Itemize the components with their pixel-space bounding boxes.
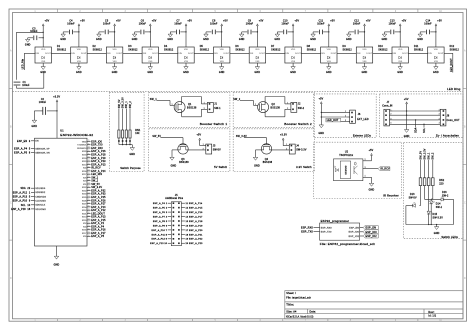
wire: [73, 31, 79, 33]
svg-text:GND: GND: [346, 39, 352, 41]
svg-text:28: 28: [88, 173, 90, 175]
svg-text:GND: GND: [434, 233, 440, 235]
svg-text:+5V: +5V: [152, 21, 157, 23]
svg-text:DIN: DIN: [428, 53, 432, 55]
resistor RN2.3: [427, 178, 430, 186]
connector J2 SW-2: [291, 102, 297, 112]
pin IO7 of U1 / net ESP_A_P13: [87, 163, 91, 165]
power +5V for J7: [406, 102, 408, 104]
junction: [364, 31, 365, 32]
svg-text:GND: GND: [219, 72, 225, 74]
ground: [362, 67, 366, 70]
svg-text:VDD: VDD: [434, 49, 439, 51]
wire: [125, 138, 127, 145]
svg-text:ESP_A_P4 1: ESP_A_P4 1: [153, 202, 168, 205]
svg-text:ESP_A_P11 8: ESP_A_P11 8: [152, 233, 168, 236]
wire: [349, 31, 355, 33]
wire: [252, 31, 258, 33]
svg-text:VDD: VDD: [255, 49, 260, 51]
wire: [47, 110, 57, 112]
capacitor C12 100nF: [354, 30, 356, 35]
svg-text:ESP_RX0: ESP_RX0: [321, 227, 333, 229]
svg-text:ESP_IO0: ESP_IO0: [366, 231, 378, 234]
wire: [313, 31, 319, 33]
svg-text:Q4: Q4: [265, 159, 269, 161]
pin IO6 of U1 / net ESP_A_P23: [87, 160, 91, 162]
svg-text:SW_3.3V: SW_3.3V: [425, 148, 427, 159]
LED D14 SW-1: [432, 186, 434, 199]
ground: [54, 256, 58, 259]
svg-text:DIN: DIN: [393, 53, 397, 55]
svg-text:13: 13: [88, 193, 90, 195]
svg-text:DIN: DIN: [178, 53, 182, 55]
svg-text:GND: GND: [239, 39, 245, 41]
sheet pin ESP_EN: [360, 227, 364, 229]
pin IO24 of U1 / net ESP_A_P15: [87, 219, 91, 221]
wire +5V rail from left: [17, 31, 44, 33]
svg-text:100nF: 100nF: [317, 23, 325, 25]
connector J1 SW-1: [207, 102, 213, 112]
pin 1 of J5 (ESP_A_P4): [168, 202, 172, 204]
wire DOUT: [301, 52, 320, 54]
svg-text:ESP_IO0: ESP_IO0: [349, 232, 360, 234]
svg-text:GND: GND: [362, 72, 368, 74]
pin IO20 of U1 / net ESP_A_P14: [87, 206, 91, 208]
wire: [216, 31, 222, 33]
svg-text:Q2: Q2: [272, 104, 276, 106]
svg-text:4: 4: [439, 123, 440, 125]
power +5V: [199, 138, 201, 140]
svg-text:SW_1: SW_1: [429, 152, 431, 160]
ground: [168, 34, 172, 37]
wire: [99, 31, 105, 33]
net label LED_OUT: [326, 118, 341, 122]
connector J6 EXT_LED: [350, 110, 356, 123]
svg-text:ESP_EN: ESP_EN: [366, 227, 377, 230]
power +5V for D5: [185, 24, 187, 26]
svg-text:Rev:: Rev:: [428, 311, 434, 314]
svg-text:SW-2: SW-2: [298, 108, 305, 110]
wire VSS to ground: [256, 63, 258, 67]
ground: [77, 67, 81, 70]
svg-text:14: 14: [88, 196, 90, 198]
power +5V for D6: [221, 24, 223, 26]
connector J8 Conn_OUT: [440, 109, 446, 126]
svg-text:ESP_A_P18: ESP_A_P18: [91, 153, 106, 156]
junction: [126, 144, 127, 145]
global label IR_RCV: [378, 167, 390, 171]
wire: [122, 109, 124, 130]
wire: [180, 31, 186, 33]
svg-text:D1: D1: [57, 46, 61, 48]
svg-text:ESP_A_P9 6: ESP_A_P9 6: [153, 224, 168, 227]
svg-text:VDD: VDD: [148, 49, 153, 51]
junction: [406, 110, 407, 111]
svg-text:C4: C4: [69, 21, 73, 23]
svg-text:ESP32-WROOM-32: ESP32-WROOM-32: [60, 133, 93, 137]
ground: [220, 67, 224, 70]
svg-text:VSS: VSS: [148, 61, 153, 63]
LED driver D4 SK6812: [142, 47, 158, 63]
wire source loop: [181, 110, 183, 117]
pin 3 OUT of U2: [363, 168, 378, 170]
svg-text:100nF: 100nF: [424, 23, 432, 25]
wire VSS to ground: [328, 63, 330, 67]
svg-text:BSS138: BSS138: [271, 107, 281, 109]
svg-text:SW-1: SW-1: [214, 108, 221, 110]
svg-text:GND: GND: [132, 39, 138, 41]
ground: [327, 67, 331, 70]
Switch LEDs section box (dashed): [404, 143, 464, 239]
svg-text:D2: D2: [93, 46, 97, 48]
wire DOUT: [408, 52, 427, 54]
ground: [148, 67, 152, 70]
svg-text:ESP_A_P6 3: ESP_A_P6 3: [153, 211, 168, 214]
svg-text:2: 2: [391, 114, 392, 116]
junction: [114, 31, 115, 32]
svg-text:ESP_A_P18 18: ESP_A_P18 18: [11, 208, 31, 211]
svg-text:GND: GND: [275, 39, 281, 41]
pin IO14 of U1 / net SW_3.3V: [87, 186, 91, 188]
wire: [39, 37, 44, 39]
wire LED common rail: [406, 224, 454, 226]
svg-text:1: 1: [255, 104, 256, 106]
svg-text:15 ESP_A_P18: 15 ESP_A_P18: [186, 220, 204, 223]
svg-text:VSS: VSS: [113, 61, 118, 63]
wire VSS to ground: [399, 63, 401, 67]
junction: [129, 144, 130, 145]
svg-text:SW_1: SW_1: [150, 99, 158, 101]
svg-text:13 ESP_A_P16: 13 ESP_A_P16: [186, 211, 204, 214]
svg-text:ESP_A_P8 5: ESP_A_P8 5: [153, 220, 168, 223]
svg-text:KiCad E.D.A. kicad (6.0.5): KiCad E.D.A. kicad (6.0.5): [286, 315, 313, 318]
svg-text:D15: D15: [433, 214, 438, 216]
svg-text:DIN: DIN: [36, 53, 40, 55]
LED driver D12 SK6812: [428, 47, 444, 63]
Switch Purpose section box (dashed): [109, 93, 144, 172]
svg-text:+5V: +5V: [330, 21, 335, 23]
junction: [185, 31, 186, 32]
junction: [435, 31, 436, 32]
svg-text:DOUT: DOUT: [402, 53, 408, 55]
wire VSS to ground: [364, 63, 366, 67]
svg-text:D11: D11: [414, 46, 419, 48]
capacitor C11 100nF: [318, 30, 320, 35]
wire: [118, 109, 120, 130]
svg-text:+5V: +5V: [80, 21, 85, 23]
svg-text:C2: C2: [41, 99, 45, 101]
LED driver D8 SK6812: [285, 47, 301, 63]
wire: [420, 160, 422, 178]
pin IO23 of U1 / net ESP_A_P13: [87, 216, 91, 218]
svg-text:2: 2: [365, 159, 366, 161]
wire: [321, 111, 347, 113]
svg-text:VSS: VSS: [41, 61, 46, 63]
svg-text:+5V: +5V: [404, 99, 409, 101]
resistor RN2.2: [423, 178, 426, 186]
wire: [283, 145, 289, 147]
svg-text:VDD: VDD: [291, 49, 296, 51]
svg-text:File: target.kicad_sch: File: target.kicad_sch: [286, 296, 311, 299]
svg-text:DOUT: DOUT: [81, 53, 87, 55]
wire source to ground: [172, 149, 180, 151]
svg-text:ESP_A_P12 1: ESP_A_P12 1: [13, 191, 31, 194]
wire: [420, 31, 426, 33]
junction: [122, 144, 123, 145]
svg-text:+3.3V: +3.3V: [280, 134, 287, 136]
svg-text:CLK/CMD: CLK/CMD: [35, 201, 46, 203]
svg-text:ESP_A_P5 2: ESP_A_P5 2: [153, 207, 168, 210]
svg-text:SW-5V: SW-5V: [409, 197, 417, 199]
LED Ring section boundary (dashed): [13, 91, 464, 93]
svg-text:+5V: +5V: [369, 150, 374, 152]
svg-text:SK6812: SK6812: [307, 49, 317, 51]
svg-text:C6: C6: [141, 21, 145, 23]
Externe LEDs section box (dashed): [314, 94, 377, 137]
svg-text:3: 3: [439, 118, 440, 120]
ground: [418, 34, 422, 37]
svg-text:+5V: +5V: [402, 21, 407, 23]
svg-text:VSS: VSS: [184, 61, 189, 63]
ground: [184, 67, 188, 70]
wire: [170, 31, 176, 33]
pin 7 of J5 (ESP_A_P10): [168, 229, 172, 231]
svg-text:33: 33: [88, 232, 90, 234]
wire: [430, 31, 436, 33]
pin IO10 of U1 / net LED_RIN: [87, 173, 91, 175]
svg-text:Additional Pins: Additional Pins: [165, 197, 184, 200]
power +5V for D10: [364, 24, 366, 26]
svg-text:SENSOR_VP: SENSOR_VP: [35, 148, 50, 150]
svg-text:SK6812: SK6812: [93, 49, 103, 51]
wire drain to connector: [269, 149, 289, 151]
ground: [97, 34, 101, 37]
svg-text:GND: GND: [54, 265, 60, 267]
ground: [132, 34, 136, 37]
svg-text:29: 29: [88, 176, 90, 178]
svg-text:LED_DOUT: LED_DOUT: [91, 213, 105, 215]
pin SENSOR_VP of U1: [31, 147, 35, 149]
svg-text:C12: C12: [354, 21, 359, 23]
wire: [28, 37, 33, 39]
3.3V Switch section box (dashed): [233, 129, 314, 172]
svg-text:Title:: Title:: [286, 303, 294, 307]
svg-text:42: 42: [88, 212, 90, 214]
wire DOUT: [87, 52, 106, 54]
svg-text:LED_Rin: LED_Rin: [23, 58, 25, 69]
svg-text:ESP_A_P12: ESP_A_P12: [91, 209, 106, 212]
power +5V for D8: [292, 24, 294, 26]
svg-text:100nF: 100nF: [246, 23, 254, 25]
svg-text:12: 12: [88, 189, 90, 191]
svg-text:GND: GND: [96, 39, 102, 41]
svg-text:RN1: RN1: [135, 130, 141, 132]
wire stubs to connector: [201, 103, 207, 105]
svg-text:ESP_A_P16: ESP_A_P16: [91, 229, 106, 232]
svg-text:SK6812: SK6812: [450, 49, 460, 51]
svg-text:31: 31: [88, 157, 90, 159]
wire DOUT: [444, 52, 453, 54]
wire DOUT: [373, 52, 392, 54]
junction: [257, 31, 258, 32]
svg-text:DIN: DIN: [286, 53, 290, 55]
svg-text:2: 2: [204, 108, 205, 110]
svg-text:1: 1: [365, 176, 366, 178]
svg-text:220: 220: [439, 184, 444, 186]
svg-text:BSS138: BSS138: [179, 162, 189, 164]
svg-text:IR_RCV: IR_RCV: [380, 169, 390, 171]
svg-text:DOUT: DOUT: [45, 53, 51, 55]
svg-text:SW-3.3V: SW-3.3V: [296, 150, 307, 152]
wire VSS to ground: [292, 63, 294, 67]
svg-text:11: 11: [88, 222, 90, 224]
svg-text:DIN: DIN: [214, 53, 218, 55]
ground: [112, 67, 116, 70]
pin 6 of J5 (ESP_A_P9): [168, 224, 172, 226]
pin IO27 of U1 / net ESP_A_P16: [87, 229, 91, 231]
capacitor C9 100nF: [247, 30, 249, 35]
svg-text:+3.3V: +3.3V: [53, 97, 60, 99]
wire: [242, 31, 248, 33]
svg-text:GND: GND: [417, 39, 423, 41]
svg-text:Sheet: /: Sheet: /: [286, 292, 296, 295]
svg-text:16: 16: [88, 163, 90, 165]
junction: [221, 31, 222, 32]
junction: [406, 115, 407, 116]
svg-text:SW-1: SW-1: [436, 207, 443, 209]
net label LED_Rin: [24, 52, 35, 54]
pin IO9 of U1 / net ESP_A_P24: [87, 170, 91, 172]
ground: [255, 67, 259, 70]
junction: [321, 116, 322, 117]
svg-text:D5: D5: [200, 46, 204, 48]
LED driver D5 SK6812: [178, 47, 194, 63]
svg-text:10k: 10k: [135, 133, 140, 135]
capacitor C3 100nF: [33, 36, 35, 41]
svg-text:+5V: +5V: [187, 21, 192, 23]
junction: [400, 31, 401, 32]
svg-text:ESP_A_P4 5: ESP_A_P4 5: [14, 147, 31, 150]
IC U1 ESP32-WROOM-32: [35, 138, 88, 246]
ground: [275, 34, 279, 37]
svg-text:C8: C8: [212, 21, 216, 23]
svg-text:ESP_A_P25: ESP_A_P25: [91, 196, 106, 199]
svg-text:ESP_RX0: ESP_RX0: [91, 148, 103, 150]
svg-text:GND: GND: [290, 72, 296, 74]
svg-text:Externe LEDs: Externe LEDs: [353, 133, 372, 137]
junction: [43, 32, 44, 33]
svg-text:DIN: DIN: [71, 53, 75, 55]
svg-text:SK6812: SK6812: [378, 49, 388, 51]
svg-text:D12: D12: [450, 46, 455, 48]
svg-text:GND: GND: [171, 166, 177, 168]
transistor Q4 BSS138: [261, 144, 271, 154]
svg-text:ESP_RX0: ESP_RX0: [301, 226, 314, 229]
svg-text:15: 15: [88, 199, 90, 201]
svg-text:SW_5V: SW_5V: [119, 99, 121, 108]
wire: [385, 31, 391, 33]
svg-text:Booster Switch 2: Booster Switch 2: [284, 122, 312, 126]
pin 19 of J5 (ESP_A_P22): [181, 238, 185, 240]
svg-text:SW-3.3V: SW-3.3V: [433, 217, 444, 219]
svg-text:SK6812: SK6812: [343, 49, 353, 51]
svg-text:100uF: 100uF: [22, 85, 30, 87]
power +3.3V for U1: [56, 100, 58, 102]
svg-text:1: 1: [287, 103, 288, 105]
svg-text:100nF: 100nF: [39, 102, 47, 104]
pin IO5 of U1 / net ESP_A_P19: [87, 157, 91, 159]
svg-text:DOUT: DOUT: [295, 53, 301, 55]
wire to gate: [244, 137, 267, 139]
LED driver D2 SK6812: [71, 47, 87, 63]
svg-text:ESP_A_P13 5: ESP_A_P13 5: [13, 195, 31, 198]
svg-text:SD0/CLK: SD0/CLK: [35, 205, 45, 207]
svg-text:VSS: VSS: [77, 61, 82, 63]
svg-text:GND: GND: [433, 72, 439, 74]
LED driver D3 SK6812: [106, 47, 122, 63]
svg-text:+5V: +5V: [116, 21, 121, 23]
svg-text:C7: C7: [176, 21, 180, 23]
junction: [321, 112, 322, 113]
wire: [428, 214, 430, 225]
resistor RN1.3: [125, 130, 127, 138]
svg-text:D9: D9: [343, 46, 347, 48]
ground: [32, 120, 36, 123]
pin 1 GND of U2: [363, 176, 372, 178]
title block frame: [285, 291, 463, 319]
ground: [204, 34, 208, 37]
svg-text:VSS: VSS: [434, 61, 439, 63]
svg-text:SK6812: SK6812: [164, 49, 174, 51]
svg-text:EXT_LED: EXT_LED: [357, 119, 369, 121]
svg-text:100nF: 100nF: [389, 23, 397, 25]
capacitor C6 100nF: [140, 30, 142, 35]
pin 4 of J5 (ESP_A_P7): [168, 216, 172, 218]
svg-text:14 ESP_A_P17: 14 ESP_A_P17: [186, 215, 204, 218]
pin 3 of J5 (ESP_A_P6): [168, 211, 172, 213]
power +5V for D7: [257, 24, 259, 26]
svg-text:CMD/SD3: CMD/SD3: [35, 196, 46, 198]
svg-text:GND: GND: [318, 133, 324, 135]
svg-text:SW_3.3V: SW_3.3V: [91, 187, 102, 189]
svg-text:GND: GND: [82, 141, 87, 143]
wire source to ground: [256, 149, 264, 151]
wire: [131, 145, 133, 148]
svg-text:11 ESP_A_P14: 11 ESP_A_P14: [186, 202, 204, 205]
pin IO3 of U1 / net ESP_A_P26: [87, 150, 91, 152]
svg-text:ESP_TX0: ESP_TX0: [301, 231, 313, 234]
svg-text:ESP_A_P32: ESP_A_P32: [91, 189, 106, 192]
wire: [122, 138, 124, 145]
wire VSS to ground: [435, 63, 437, 67]
svg-text:ESP_A_P13: ESP_A_P13: [91, 163, 106, 166]
pin IO25 of U1 / net ESP_A_P2: [87, 222, 91, 224]
wire DOUT: [230, 52, 249, 54]
wire DOUT: [159, 52, 178, 54]
svg-text:ESP_A_P13 10: ESP_A_P13 10: [150, 242, 168, 245]
wire drain loop: [181, 97, 183, 105]
svg-text:100nF: 100nF: [139, 23, 147, 25]
wire: [341, 121, 347, 123]
wire drain loop: [264, 97, 266, 105]
svg-text:1: 1: [439, 109, 440, 111]
svg-text:ESP_A_P19: ESP_A_P19: [91, 157, 106, 160]
svg-text:RN2: RN2: [439, 180, 445, 182]
pin IO15 of U1 / net ESP_A_P32: [87, 190, 91, 192]
svg-text:GND: GND: [254, 166, 260, 168]
wire VSS to ground: [42, 63, 44, 67]
power +5V for D11: [399, 24, 401, 26]
